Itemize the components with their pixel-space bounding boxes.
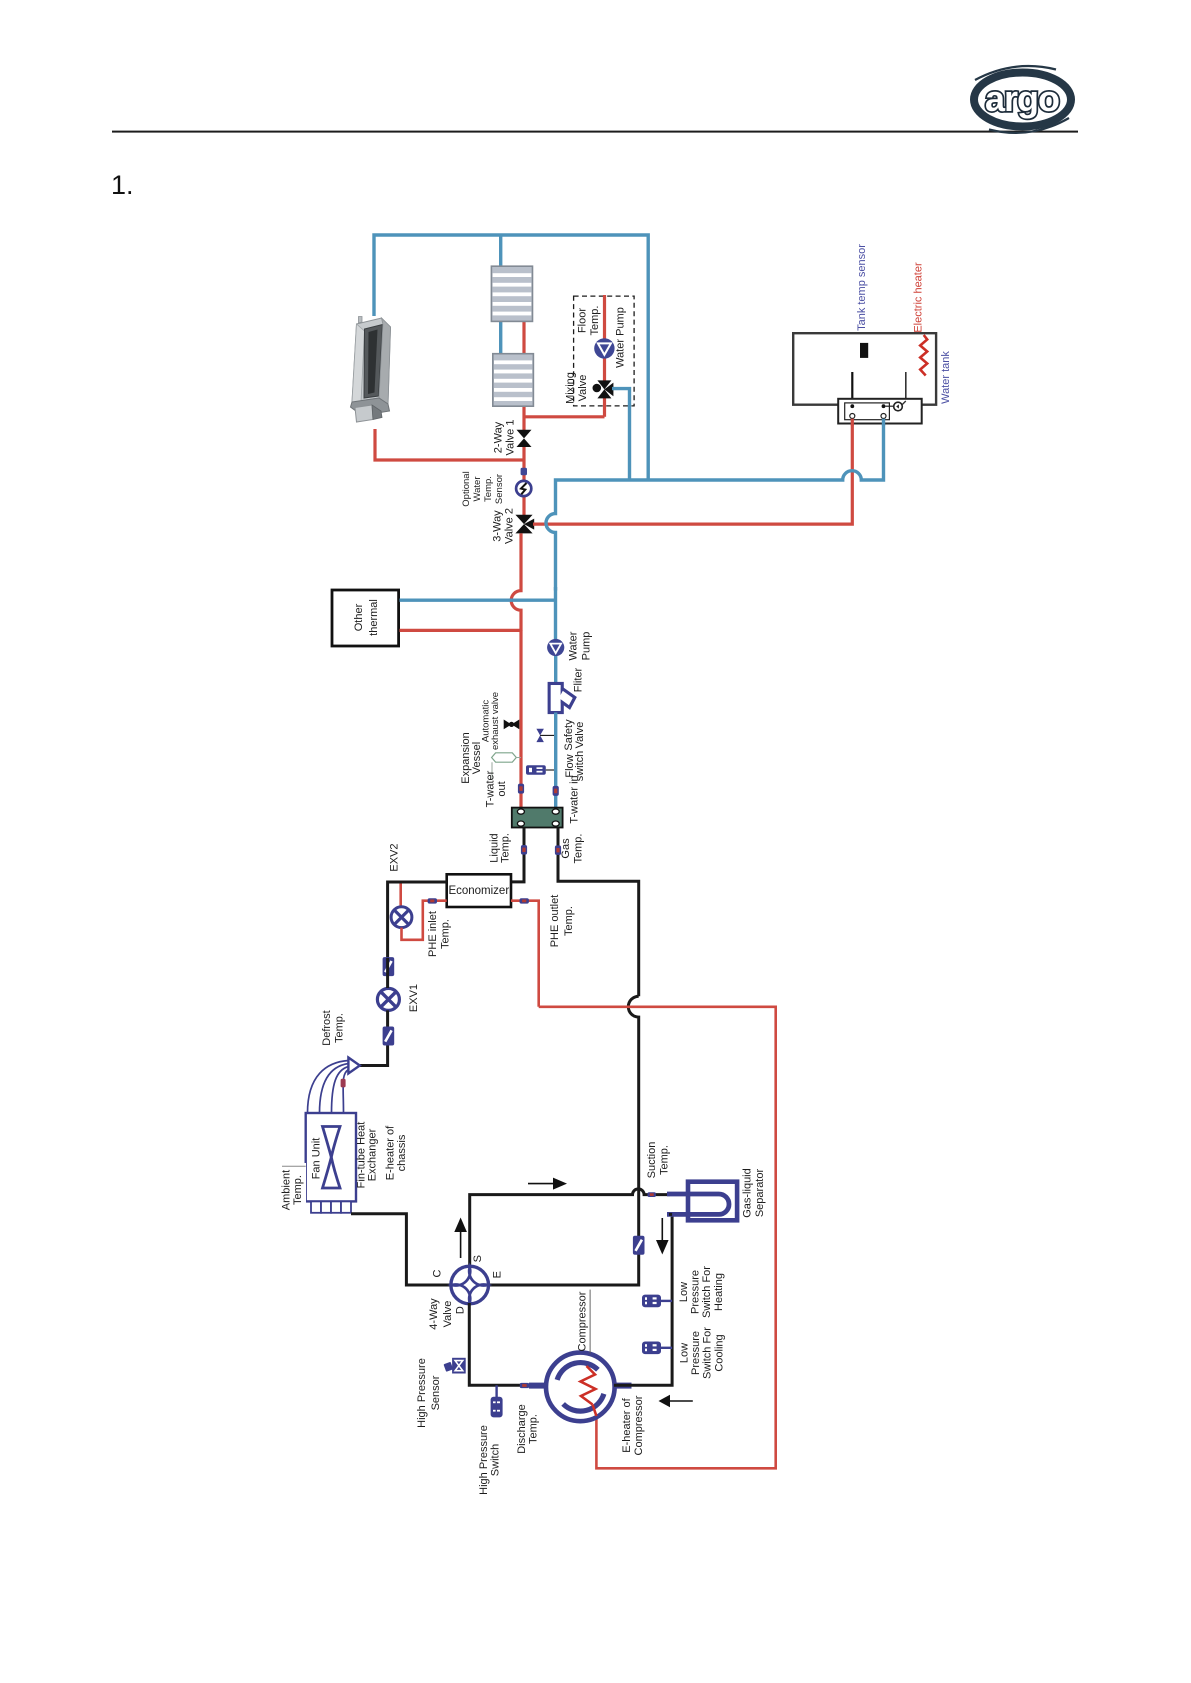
wire: red between radiators bbox=[522, 321, 525, 354]
svg-text:exhaust valve: exhaust valve bbox=[490, 692, 501, 750]
3-way valve 2 bbox=[515, 515, 534, 534]
high pressure switch stub bbox=[495, 1385, 497, 1397]
svg-text:Temp.: Temp. bbox=[292, 1175, 304, 1205]
other thermal box bbox=[332, 590, 399, 646]
svg-text:Sensor: Sensor bbox=[494, 474, 505, 504]
svg-text:1.: 1. bbox=[111, 170, 134, 200]
svg-text:Discharge: Discharge bbox=[516, 1404, 528, 1454]
svg-text:Water Pump: Water Pump bbox=[614, 307, 626, 368]
suction temp sensor bbox=[648, 1192, 656, 1197]
svg-text:Valve: Valve bbox=[574, 722, 586, 749]
svg-text:E-heater of: E-heater of bbox=[621, 1397, 633, 1452]
discharge temp sensor bbox=[520, 1383, 529, 1388]
wire: black HX outlet to 4-way C bbox=[351, 1214, 453, 1285]
electric heater element bbox=[920, 335, 927, 376]
wire: red loop right side bbox=[539, 1007, 776, 1469]
fin-tube heat exchanger bbox=[306, 1113, 356, 1201]
svg-text:Cooling: Cooling bbox=[713, 1334, 725, 1371]
floor heating dashed box bbox=[574, 296, 635, 406]
svg-text:Compressor: Compressor bbox=[633, 1395, 645, 1455]
wire: red 3-way valve to tank bbox=[533, 417, 852, 524]
svg-text:PHE inlet: PHE inlet bbox=[427, 911, 439, 957]
automatic exhaust valve bbox=[504, 720, 520, 730]
EXV1 bbox=[377, 988, 399, 1010]
wire: blue filter to PHE bbox=[554, 713, 557, 809]
svg-text:Temp.: Temp. bbox=[527, 1414, 539, 1444]
svg-text:Economizer: Economizer bbox=[448, 885, 509, 897]
svg-text:T-water: T-water bbox=[484, 770, 496, 807]
svg-text:Pump: Pump bbox=[580, 632, 592, 661]
wire: red pump to mixing valve bbox=[603, 358, 606, 381]
svg-text:EXV2: EXV2 bbox=[389, 843, 401, 871]
svg-text:Separator: Separator bbox=[754, 1169, 766, 1218]
wire: black suction header with bump bbox=[470, 1189, 670, 1268]
svg-text:Ambient: Ambient bbox=[281, 1170, 293, 1210]
sight glass 2 bbox=[383, 1027, 395, 1046]
svg-text:thermal: thermal bbox=[368, 599, 380, 636]
wire: blue other thermal with bridge over red bbox=[400, 599, 556, 602]
svg-text:Temp.: Temp. bbox=[440, 919, 452, 949]
sight glass 1 bbox=[383, 957, 395, 976]
wire: blue between radiators bbox=[499, 321, 502, 354]
wire: blue return header with bridge over red bbox=[546, 417, 884, 591]
svg-text:Temp.: Temp. bbox=[589, 306, 601, 336]
wire: red other thermal bbox=[400, 629, 522, 632]
ambient temp label background bbox=[280, 1163, 307, 1213]
wire: red floor loop bbox=[603, 295, 606, 339]
svg-text:EXV1: EXV1 bbox=[408, 984, 420, 1012]
water pump (main) bbox=[547, 639, 564, 656]
wire: red EXV2 branch bbox=[399, 884, 402, 907]
svg-text:Temp.: Temp. bbox=[563, 906, 575, 936]
water tank bbox=[793, 333, 936, 405]
safety valve bbox=[536, 729, 554, 742]
liquid temp sensor bbox=[521, 845, 527, 855]
low pressure switch cooling bbox=[642, 1342, 672, 1355]
wire: black EXV1 line lower bbox=[360, 1010, 388, 1065]
svg-text:Temp.: Temp. bbox=[483, 476, 494, 502]
distributor tubes bbox=[308, 1061, 349, 1114]
argo logo bbox=[974, 66, 1071, 133]
wire: red radiator 2 to 2-way valve bbox=[522, 406, 525, 431]
T-water out sensor bbox=[518, 784, 524, 794]
wire: red below 2-way valve bbox=[522, 446, 525, 468]
svg-text:PHE outlet: PHE outlet bbox=[549, 895, 561, 948]
radiator 2 bbox=[493, 354, 534, 407]
wire: red stub into tank coil bbox=[851, 419, 854, 426]
wire: blue supply header top bbox=[374, 235, 648, 480]
wire: blue drop to radiator 1 bbox=[499, 235, 502, 266]
fin comb bbox=[311, 1201, 351, 1212]
wire: black economizer left bbox=[388, 882, 447, 958]
wire: black compressor suction from separator bbox=[614, 1214, 672, 1385]
tank internal pipe left bbox=[851, 372, 853, 405]
svg-text:Gas-liquid: Gas-liquid bbox=[742, 1168, 754, 1218]
fan coil unit bbox=[351, 317, 391, 423]
plate heat exchanger PHE bbox=[512, 808, 563, 828]
compressor bbox=[529, 1353, 632, 1422]
svg-text:Temp.: Temp. bbox=[658, 1145, 670, 1175]
svg-text:2-Way: 2-Way bbox=[493, 421, 505, 453]
svg-text:Optional: Optional bbox=[461, 471, 472, 506]
mixing valve bbox=[593, 380, 614, 398]
4-way valve bbox=[451, 1266, 489, 1304]
svg-text:D: D bbox=[455, 1306, 467, 1314]
radiator 1 bbox=[491, 266, 532, 321]
svg-text:C: C bbox=[432, 1269, 444, 1277]
economizer bbox=[447, 874, 511, 907]
high pressure sensor bbox=[443, 1358, 465, 1374]
wire: red economizer to PHE outlet drop bbox=[511, 901, 539, 1007]
wire: black PHE gas line down right bbox=[558, 828, 639, 997]
svg-text:Fliter: Fliter bbox=[573, 667, 585, 692]
svg-text:Low: Low bbox=[679, 1343, 691, 1363]
flow switch bbox=[526, 765, 554, 774]
svg-text:Mixing: Mixing bbox=[565, 372, 577, 404]
svg-text:Switch For: Switch For bbox=[702, 1327, 714, 1379]
high pressure switch bbox=[491, 1397, 503, 1418]
expansion vessel bbox=[492, 753, 521, 780]
svg-text:Defrost: Defrost bbox=[321, 1010, 333, 1045]
flow arrow down beside separator outlet bbox=[656, 1218, 669, 1255]
wire: blue pump to filter bbox=[554, 656, 557, 684]
svg-text:Pressure: Pressure bbox=[690, 1331, 702, 1375]
labels group bbox=[281, 244, 952, 1495]
svg-text:E: E bbox=[492, 1271, 504, 1278]
2-way valve 1 bbox=[517, 430, 532, 447]
water pump (floor) bbox=[594, 338, 614, 358]
T-water in sensor bbox=[553, 786, 559, 796]
svg-text:Valve 2: Valve 2 bbox=[504, 508, 516, 544]
svg-text:Water tank: Water tank bbox=[940, 351, 952, 404]
wire: red 3-way valve down bbox=[511, 533, 521, 631]
sight glass 3 bbox=[633, 1236, 645, 1255]
svg-text:Water: Water bbox=[568, 631, 580, 660]
ambient temp leader bbox=[282, 1165, 306, 1167]
wire: black PHE liquid line to economizer bbox=[512, 828, 525, 882]
svg-text:Switch For: Switch For bbox=[701, 1266, 713, 1318]
svg-text:E-heater of: E-heater of bbox=[385, 1125, 397, 1180]
wire: red compressor heater tail bbox=[593, 1405, 597, 1417]
svg-text:Vessel: Vessel bbox=[471, 742, 483, 774]
svg-text:Valve: Valve bbox=[442, 1301, 454, 1328]
svg-text:Floor: Floor bbox=[577, 308, 589, 333]
tank internal pipe right bbox=[905, 372, 907, 401]
wire: red mixing circuit return bbox=[524, 415, 605, 418]
svg-text:Fan Unit: Fan Unit bbox=[311, 1138, 323, 1180]
svg-text:High Pressure: High Pressure bbox=[416, 1358, 428, 1428]
svg-text:4-Way: 4-Way bbox=[428, 1298, 440, 1330]
wire: blue stub into tank coil bbox=[882, 419, 885, 426]
PHE inlet temp sensor bbox=[428, 898, 437, 903]
low pressure switch heating bbox=[642, 1295, 672, 1308]
filter bbox=[549, 684, 575, 713]
wire: red fan coil return bbox=[375, 429, 524, 460]
EXV2 bbox=[391, 907, 412, 928]
svg-text:Exchanger: Exchanger bbox=[367, 1128, 379, 1181]
gas-liquid separator bbox=[667, 1182, 737, 1221]
wire: black E line to 4-way bbox=[487, 1236, 639, 1285]
svg-text:chassis: chassis bbox=[396, 1134, 408, 1171]
tank temp sensor bar bbox=[860, 343, 868, 358]
wire: blue from mixing valve bbox=[612, 389, 630, 480]
distributor cone bbox=[348, 1058, 359, 1074]
tank coil box bbox=[838, 399, 922, 424]
svg-text:Other: Other bbox=[353, 603, 365, 631]
section number 1. bbox=[111, 170, 134, 200]
svg-text:Heating: Heating bbox=[713, 1273, 725, 1311]
svg-text:T-water in: T-water in bbox=[569, 775, 581, 823]
svg-text:Switch: Switch bbox=[489, 1444, 501, 1476]
header rule bbox=[112, 131, 1078, 133]
svg-text:Tank temp sensor: Tank temp sensor bbox=[856, 244, 868, 331]
wire: black 4-way D to compressor bbox=[469, 1303, 547, 1385]
wire: black EXV1 line upper join bbox=[386, 958, 389, 988]
optional water temp sensor pocket bbox=[521, 468, 527, 476]
svg-text:Sensor: Sensor bbox=[430, 1375, 442, 1410]
wire: red EXV2 loop to economizer bbox=[402, 901, 447, 940]
svg-text:Low: Low bbox=[678, 1282, 690, 1302]
svg-text:Water: Water bbox=[472, 477, 483, 502]
optional water temp sensor bbox=[516, 481, 531, 496]
svg-text:argo: argo bbox=[985, 78, 1059, 119]
wire: blue to water pump bbox=[554, 587, 557, 639]
wire: black gas line bridge over red bbox=[628, 996, 638, 1236]
svg-text:Compressor: Compressor bbox=[577, 1291, 589, 1351]
wire: red mixing valve down bbox=[603, 397, 606, 417]
gas temp sensor bbox=[555, 845, 561, 855]
svg-text:Temp.: Temp. bbox=[573, 834, 585, 864]
flow arrow up beside S line bbox=[454, 1218, 467, 1259]
svg-text:Valve 1: Valve 1 bbox=[505, 420, 517, 456]
svg-text:Suction: Suction bbox=[646, 1142, 658, 1179]
wire: red sensor to 3-way valve bbox=[522, 475, 525, 516]
flow arrow right on suction header bbox=[528, 1178, 567, 1190]
flow arrow left near compressor suction bbox=[659, 1395, 693, 1408]
wire: red down to PHE bbox=[519, 630, 522, 808]
svg-text:Temp.: Temp. bbox=[500, 833, 512, 863]
svg-text:Electric heater: Electric heater bbox=[912, 262, 924, 333]
wire: black separator outlet elbow bbox=[669, 1213, 672, 1216]
compressor label leader bbox=[589, 1290, 591, 1354]
svg-text:Valve: Valve bbox=[577, 375, 589, 402]
defrost temp sensor bbox=[341, 1079, 346, 1088]
svg-text:S: S bbox=[472, 1255, 484, 1262]
PHE outlet temp sensor bbox=[520, 898, 529, 903]
svg-text:Temp.: Temp. bbox=[333, 1013, 345, 1043]
svg-text:out: out bbox=[496, 781, 508, 796]
svg-text:Gas: Gas bbox=[560, 838, 572, 859]
svg-text:Pressure: Pressure bbox=[690, 1270, 702, 1314]
svg-text:3-Way: 3-Way bbox=[492, 510, 504, 542]
